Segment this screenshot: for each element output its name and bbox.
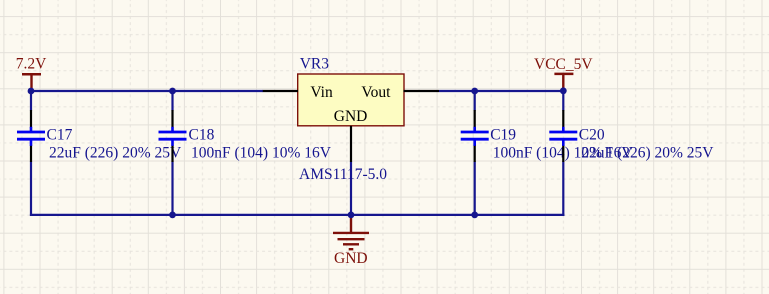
junction node at VR3 GND — [348, 212, 355, 219]
capacitor C17 — [17, 110, 45, 162]
junction node at C18 top — [169, 88, 176, 95]
ground symbol GND — [333, 215, 369, 267]
svg-text:7.2V: 7.2V — [16, 55, 47, 72]
wire C19 bottom stub — [474, 162, 476, 215]
capacitor C19 — [461, 110, 489, 162]
svg-text:C18: C18 — [189, 126, 215, 143]
wire C17 top stub — [30, 90, 32, 111]
wire C20 top stub — [562, 90, 564, 111]
wire C19 top stub — [474, 91, 476, 111]
VR3 pin 3 (GND, bottom) — [350, 126, 352, 162]
wire top-right bus (VR3 Vout to VCC_5V) — [439, 90, 563, 92]
junction node at 7.2V / C17 — [28, 88, 35, 95]
regulator VR3 body rectangle — [298, 74, 404, 126]
VR3 pin 1 (Vin, left) — [263, 90, 298, 92]
VR3 pin 2 (Vout, right) — [404, 90, 440, 92]
capacitor C20 — [549, 110, 577, 162]
wire C18 bottom stub — [171, 162, 173, 215]
svg-text:C17: C17 — [47, 126, 73, 143]
junction node at VCC_5V / C20 — [560, 87, 567, 94]
svg-text:GND: GND — [334, 250, 368, 267]
svg-text:Vin: Vin — [310, 84, 333, 101]
junction node at C19 top — [471, 88, 478, 95]
svg-text:22uF (226) 20% 25V: 22uF (226) 20% 25V — [581, 144, 714, 161]
svg-text:AMS1117-5.0: AMS1117-5.0 — [299, 166, 387, 183]
svg-text:22uF (226) 20% 25V: 22uF (226) 20% 25V — [49, 144, 182, 161]
svg-text:Vout: Vout — [361, 84, 391, 101]
junction node at C19 bottom — [471, 212, 478, 219]
capacitor C18 — [159, 110, 187, 162]
wire C18 top stub — [171, 91, 173, 111]
svg-text:C20: C20 — [579, 126, 605, 143]
wire bottom ground bus — [30, 214, 565, 216]
power port VCC_5V — [534, 56, 593, 91]
junction node at C18 bottom — [169, 212, 176, 219]
svg-text:VCC_5V: VCC_5V — [534, 56, 593, 73]
svg-text:GND: GND — [334, 108, 368, 125]
wire C20 bottom stub — [562, 162, 564, 217]
power port 7.2V — [16, 55, 47, 91]
svg-text:100nF (104) 10% 16V: 100nF (104) 10% 16V — [191, 144, 332, 161]
wire VR3 GND pin to bottom bus — [350, 162, 352, 215]
wire top-left bus (7.2V rail to VR3 Vin) — [31, 90, 263, 92]
svg-text:C19: C19 — [490, 126, 516, 143]
wire C17 bottom stub — [30, 162, 32, 217]
svg-text:VR3: VR3 — [300, 56, 330, 73]
